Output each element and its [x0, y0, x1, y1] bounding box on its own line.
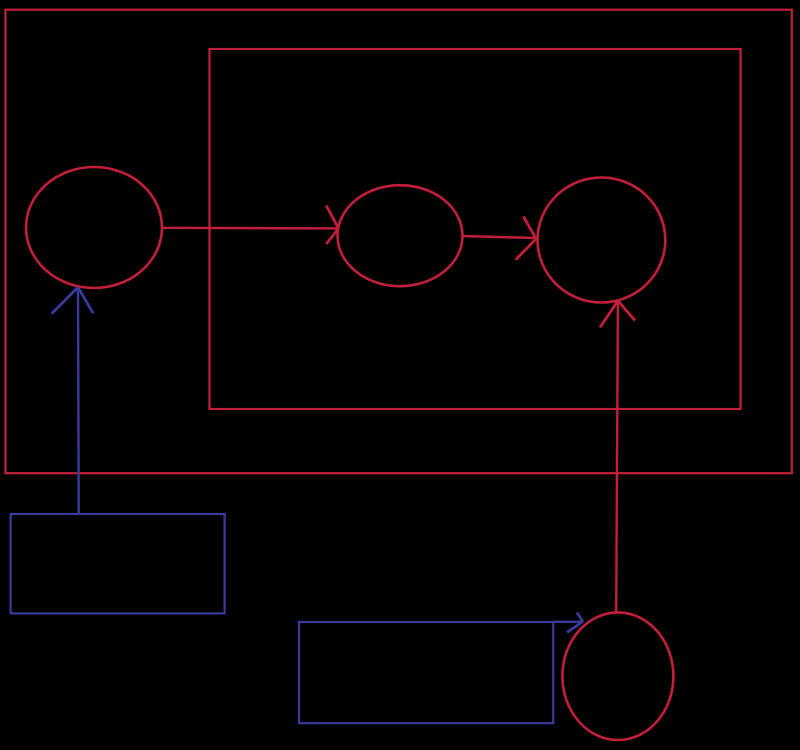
wire: blue edge from box 2 right to bottom ellipse	[553, 621, 582, 623]
wire: edge left ellipse to middle ellipse	[162, 227, 337, 230]
arrowhead into right circle bottom	[600, 301, 635, 328]
wire: blue edge from box 1 up to left ellipse	[77, 288, 80, 514]
arrowhead into middle ellipse	[326, 206, 338, 245]
inner cluster rectangle	[210, 49, 741, 409]
arrowhead into right circle	[516, 217, 536, 260]
arrowhead into left ellipse bottom	[52, 287, 94, 313]
outer cluster rectangle	[6, 10, 792, 474]
blue box 1 (bottom left)	[11, 514, 225, 613]
wire: edge bottom ellipse up to right circle	[616, 302, 618, 612]
arrowhead into bottom ellipse	[567, 612, 583, 632]
node circle right	[538, 178, 666, 303]
node ellipse bottom	[562, 612, 673, 740]
blue box 2 (bottom middle)	[299, 622, 553, 723]
node ellipse left	[26, 167, 162, 288]
node ellipse middle	[338, 185, 463, 286]
wire: edge middle ellipse to right circle	[463, 236, 535, 238]
